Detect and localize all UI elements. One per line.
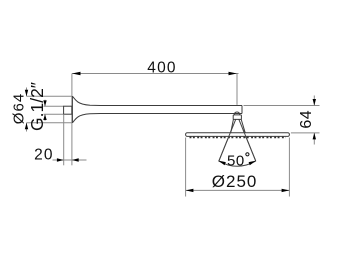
nozzle dots row [190, 136, 286, 138]
dimension 400 line [72, 73, 239, 75]
dimension O250 right arrow [282, 189, 290, 192]
flange face [71, 96, 73, 123]
flange bell top outline [72, 96, 100, 105]
dimension 20 left extension line [63, 114, 65, 165]
dimension 400 left arrow [72, 72, 81, 75]
svg-text:64: 64 [298, 110, 315, 129]
cone connector left side [231, 119, 234, 132]
dimension 20 left arrow [57, 158, 64, 161]
dimension O64 top extension line [27, 95, 72, 97]
svg-text:20: 20 [34, 147, 54, 164]
thread nipple [64, 106, 72, 114]
angle arc right arrow [249, 161, 257, 166]
svg-text:Ø250: Ø250 [212, 172, 258, 191]
wire: wall face / extension line (400 left, 20 right) [71, 74, 73, 166]
dimension O250 line [186, 189, 290, 191]
svg-text:400: 400 [147, 60, 176, 77]
dimension O250 right extension line [288, 138, 290, 197]
dimension G 1/2 lower arrow [43, 114, 46, 120]
svg-text:Ø64: Ø64 [11, 93, 28, 124]
spray cone lower right line over plate [243, 130, 256, 161]
dimension 64 line [313, 96, 315, 106]
spray cone lower left line over plate [219, 130, 232, 161]
svg-text:G.1/2″: G.1/2″ [27, 82, 47, 131]
spray cone right line [237, 116, 255, 161]
dimension 20 line [53, 159, 87, 161]
angle arc left arrow [218, 161, 226, 166]
shower arm tube bottom [100, 113, 242, 115]
dimension 64 bottom extension line [291, 132, 320, 134]
shower head plate [186, 133, 290, 137]
dimension 64 top extension line [244, 105, 320, 107]
ball joint nut [233, 115, 241, 120]
dimension G 1/2 upper arrow [43, 100, 46, 106]
dimension 20 right arrow [72, 158, 79, 161]
cone connector right side [241, 119, 245, 132]
dimension 64 bottom arrow [313, 133, 316, 140]
dimension O250 left arrow [186, 189, 194, 192]
degree symbol [246, 153, 249, 156]
dimension G 1/2 bottom extension line [44, 113, 64, 115]
dimension 400 right arrow [229, 72, 238, 75]
dimension 64 top arrow [313, 99, 316, 106]
shower arm tube end cap [241, 106, 243, 114]
angle arc 50 [218, 161, 256, 167]
dimension 400 right extension line [236, 74, 238, 105]
flange bell bottom outline [72, 114, 100, 123]
spray cone left line [219, 116, 237, 161]
dimension O64 top arrow [25, 90, 28, 97]
ball joint dome [234, 112, 239, 115]
dimension G 1/2 line [44, 100, 46, 107]
dimension O64 bottom extension line [27, 122, 72, 124]
svg-text:50: 50 [227, 153, 245, 170]
dimension O64 line [26, 88, 28, 97]
dimension O64 bottom arrow [25, 123, 28, 130]
shower arm tube top [100, 105, 242, 107]
dimension G 1/2 top extension line [44, 105, 64, 107]
dimension O250 left extension line [185, 138, 187, 197]
